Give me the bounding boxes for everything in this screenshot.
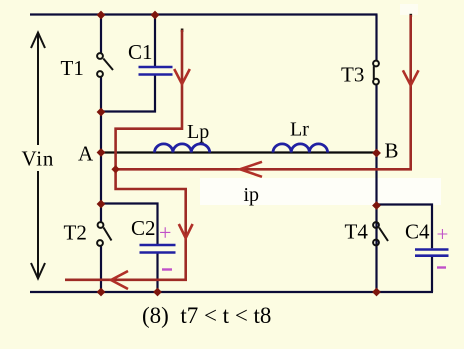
transistor switch T4 [373, 222, 388, 245]
inductor Lr [273, 144, 328, 153]
inductor Lp [155, 144, 210, 153]
wire top rail [30, 13, 378, 15]
svg-text:(8) t7 < t < t8: (8) t7 < t < t8 [142, 303, 271, 328]
svg-text:T2: T2 [64, 221, 87, 245]
capacitor C1 [139, 67, 173, 75]
svg-text:ip: ip [244, 184, 260, 206]
svg-text:+: + [159, 220, 171, 245]
wire A-B horizontal [101, 151, 377, 153]
wire red current path ip line from right [116, 15, 411, 169]
node B [372, 149, 381, 158]
arrow left on ip line [240, 162, 262, 177]
svg-text:Lp: Lp [187, 121, 209, 143]
wire C4 branch bottom [431, 257, 433, 292]
node A [97, 148, 106, 157]
svg-text:C4: C4 [405, 220, 430, 244]
wire C4 branch top L [377, 205, 433, 249]
label C4 minus [437, 266, 446, 268]
svg-text:C1: C1 [128, 40, 153, 64]
node T4 bottom junction [372, 288, 381, 297]
wire C2 branch bottom [156, 254, 158, 293]
wire C2 branch top L [101, 204, 158, 245]
wire C1 branch top [154, 15, 156, 67]
arrow down beside C2 [179, 224, 193, 238]
svg-text:T3: T3 [341, 62, 364, 86]
arrow down beside C1 [174, 69, 190, 84]
capacitor C2 [140, 245, 176, 253]
svg-text:B: B [385, 139, 399, 163]
svg-text:C2: C2 [131, 216, 156, 240]
wire red current path left loop [65, 30, 186, 280]
wire bottom rail [30, 291, 433, 293]
arrow left bottom red wire [111, 271, 128, 289]
svg-text:A: A [78, 141, 94, 165]
svg-text:Lr: Lr [290, 119, 309, 141]
Vin down arrow [31, 171, 45, 279]
wire right column upper (top rail to T3) [375, 15, 377, 61]
label C2 minus [162, 268, 172, 270]
node T4 top junction [372, 201, 381, 210]
svg-text:T4: T4 [345, 220, 369, 244]
svg-text:Vin: Vin [22, 147, 55, 171]
svg-text:+: + [437, 222, 449, 246]
arrow down right column [403, 70, 419, 85]
node C1 bottom junction [97, 108, 106, 117]
node C2 bottom junction [153, 288, 162, 297]
transistor switch T1 [97, 53, 113, 77]
transistor switch T2 [97, 222, 111, 246]
node T2 top junction [97, 200, 106, 209]
wire red line top tip [181, 29, 184, 33]
node bottom-left junction [97, 288, 106, 297]
Vin up arrow [31, 33, 45, 146]
svg-text:T1: T1 [61, 56, 84, 80]
wire left column lower (T2 to bottom rail) [100, 246, 102, 292]
wire red right line top tip [410, 14, 413, 17]
transistor switch T3 (closed) [373, 61, 379, 85]
wire left column upper (top rail to T1) [100, 15, 102, 54]
wire right column (T3 to bottom rail) [375, 84, 377, 292]
node top C1 junction [151, 11, 160, 20]
node top-left junction [97, 11, 106, 20]
node red junction near A [111, 165, 119, 173]
wire left column (T1 to T2) [100, 77, 102, 222]
capacitor C4 [415, 250, 449, 256]
wire C1 branch bottom L [101, 76, 155, 112]
